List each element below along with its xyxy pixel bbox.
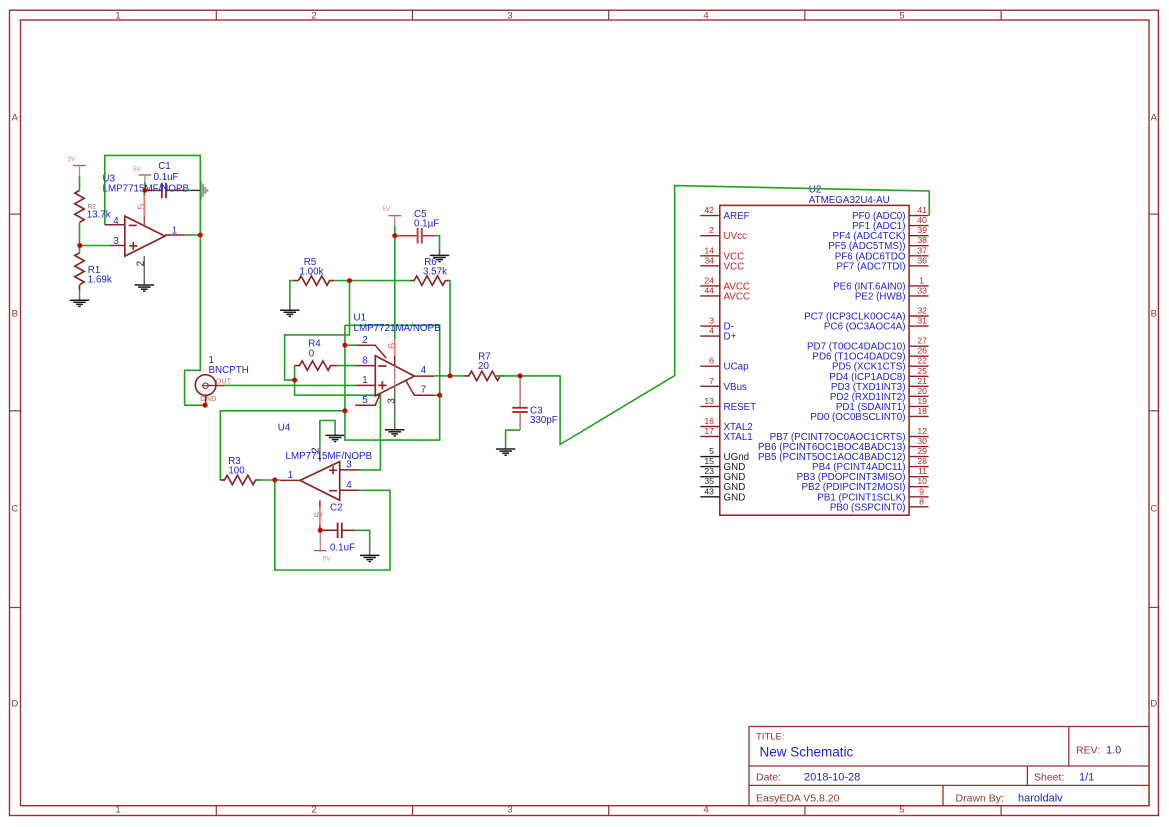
svg-text:29: 29 xyxy=(917,446,927,456)
wire node to U3 pin3 xyxy=(80,245,111,247)
svg-text:UVcc: UVcc xyxy=(724,231,748,242)
wire C2 to ground xyxy=(355,530,370,546)
svg-text:6: 6 xyxy=(387,343,399,349)
capacitor C3 plates xyxy=(512,408,528,412)
svg-text:5: 5 xyxy=(362,395,368,406)
ground (rotated right) at C1 xyxy=(201,182,208,200)
svg-text:32: 32 xyxy=(917,306,927,316)
svg-text:OUT: OUT xyxy=(216,376,232,385)
connector BNCPTH body xyxy=(195,375,216,396)
svg-text:21: 21 xyxy=(917,376,927,386)
svg-text:1: 1 xyxy=(919,275,924,285)
wire U1 guard loop top xyxy=(345,325,440,395)
frame row ticks right xyxy=(1149,214,1158,607)
junction U1 pin2 xyxy=(342,343,347,348)
wire overlay at C1 ground xyxy=(199,180,201,201)
svg-text:A: A xyxy=(12,112,19,123)
wire R1 to ground xyxy=(79,285,81,300)
svg-text:5V: 5V xyxy=(323,555,332,562)
U3 pin 5 line (V+) xyxy=(143,190,145,225)
U3 minus symbol xyxy=(129,224,137,226)
svg-text:14: 14 xyxy=(704,245,714,255)
power 5V symbol below C2 junction xyxy=(314,530,327,550)
svg-text:4: 4 xyxy=(709,326,714,336)
wire feedback-net to R3 xyxy=(220,411,345,480)
U4 pin 4 stub xyxy=(340,489,360,491)
svg-text:13: 13 xyxy=(704,396,714,406)
U1 pin 3 line (V-) xyxy=(394,386,396,415)
op-amp U1 body xyxy=(375,356,414,396)
junction U1 pin7 xyxy=(437,393,442,398)
ground below U3 pin 2 xyxy=(135,285,154,291)
capacitor C3 top lead xyxy=(519,376,521,407)
svg-text:XTAL1: XTAL1 xyxy=(724,432,753,443)
U2 left ground pin numbers xyxy=(704,446,714,496)
ground below R1 xyxy=(70,300,89,306)
svg-text:5: 5 xyxy=(899,11,904,22)
frame column ticks top xyxy=(216,10,1001,20)
svg-text:PC6 (OC3AOC4A): PC6 (OC3AOC4A) xyxy=(824,322,906,333)
junction R4 node xyxy=(292,378,297,383)
wire U3 output to BNC gnd xyxy=(185,235,203,405)
U2 left pin stubs (red) xyxy=(700,216,720,437)
frame column labels top xyxy=(115,11,904,22)
svg-text:39: 39 xyxy=(917,225,927,235)
svg-text:2: 2 xyxy=(311,11,316,22)
svg-text:AREF: AREF xyxy=(724,211,750,222)
svg-text:2018-10-28: 2018-10-28 xyxy=(804,772,860,784)
wire U1 guard loop left vertical xyxy=(345,325,440,440)
svg-text:5V: 5V xyxy=(383,206,392,213)
svg-text:3.57k: 3.57k xyxy=(423,266,447,277)
svg-text:24: 24 xyxy=(704,275,714,285)
U3 pin 2 line (V-) xyxy=(143,256,145,285)
BNC OUT pin lead xyxy=(208,385,224,387)
connector BNCPTH inner pin xyxy=(202,383,209,388)
ground at C3 xyxy=(496,449,515,455)
frame row labels left xyxy=(11,112,18,709)
wire R4 to U1 pin8 xyxy=(337,365,355,367)
U3 pin 4 stub xyxy=(105,224,125,226)
capacitor C5 right lead xyxy=(422,235,435,237)
capacitor C2 left lead xyxy=(320,529,337,531)
op-amp U3 body xyxy=(125,216,165,256)
svg-text:GND: GND xyxy=(200,394,216,403)
junction C5/5V xyxy=(392,233,397,238)
junction U1 pin4/R6/R7 xyxy=(448,373,453,378)
U1 pin 6 line (V+) xyxy=(394,338,396,366)
svg-text:4: 4 xyxy=(346,480,352,491)
wire R4 left lead riser xyxy=(294,366,296,381)
junction node R2/R1/pin3 xyxy=(77,243,82,248)
IC U2 body xyxy=(720,205,909,515)
svg-text:100: 100 xyxy=(228,465,245,476)
U2 left pin numbers xyxy=(704,205,714,436)
svg-text:41: 41 xyxy=(917,205,927,215)
resistor R7 body xyxy=(464,371,504,380)
ground at C2 xyxy=(360,555,379,561)
svg-text:9: 9 xyxy=(919,486,924,496)
wire 5V to R2 xyxy=(79,176,81,190)
ground stem at C5 xyxy=(439,250,441,255)
svg-text:1: 1 xyxy=(288,470,293,481)
svg-text:UCap: UCap xyxy=(724,362,750,373)
wire U1 pin7 to junction xyxy=(434,394,439,396)
svg-text:19: 19 xyxy=(917,396,927,406)
svg-text:haroldalv: haroldalv xyxy=(1018,793,1063,805)
ground at U4 pin2 xyxy=(325,435,344,441)
svg-text:20: 20 xyxy=(917,386,927,396)
svg-text:D: D xyxy=(1150,699,1157,710)
svg-text:4: 4 xyxy=(703,805,708,816)
frame column labels bottom xyxy=(115,805,904,816)
svg-text:44: 44 xyxy=(704,285,714,295)
wire R5 to R6 xyxy=(334,280,411,282)
svg-text:3: 3 xyxy=(387,398,398,404)
U1 plus symbol xyxy=(378,381,386,389)
svg-text:5: 5 xyxy=(136,203,148,209)
svg-text:40: 40 xyxy=(917,215,927,225)
svg-text:4: 4 xyxy=(703,11,708,22)
svg-text:PB0 (SSPCINT0): PB0 (SSPCINT0) xyxy=(830,502,906,513)
svg-text:7: 7 xyxy=(709,376,714,386)
svg-text:RESET: RESET xyxy=(724,402,757,413)
ground at C5 xyxy=(430,255,449,261)
U3 plus symbol xyxy=(129,242,137,250)
svg-text:0.1uF: 0.1uF xyxy=(153,172,178,183)
U1 pin 8 stub xyxy=(355,365,375,367)
junction C2/5V xyxy=(318,528,323,533)
U1 pin 4 stub xyxy=(414,375,434,377)
junction feedback/R3 wire xyxy=(342,408,347,413)
wire C5 to ground xyxy=(435,236,440,250)
capacitor C1 plates xyxy=(162,183,166,199)
svg-text:31: 31 xyxy=(917,316,927,326)
capacitor C2 right lead xyxy=(342,529,355,531)
power 5V symbol above R2 xyxy=(73,166,86,177)
U4 pin 2 line (V-) xyxy=(319,442,321,461)
svg-text:7: 7 xyxy=(421,384,426,395)
svg-text:1.00k: 1.00k xyxy=(300,266,324,277)
svg-text:5: 5 xyxy=(709,446,714,456)
svg-text:1.0: 1.0 xyxy=(1106,745,1121,757)
svg-text:3: 3 xyxy=(507,805,512,816)
U1 pin 3 lower segment xyxy=(394,421,396,430)
svg-text:5V: 5V xyxy=(67,156,76,163)
svg-text:D: D xyxy=(11,699,18,710)
resistor R4 body xyxy=(295,361,338,370)
resistor R3 body xyxy=(220,475,260,484)
BNC GND pin lead xyxy=(205,395,207,405)
svg-text:5: 5 xyxy=(313,511,325,517)
U1 pin 3 green segment xyxy=(394,415,396,420)
junction BNC GND xyxy=(203,403,208,408)
svg-text:B: B xyxy=(12,309,18,320)
ground stem at C2 xyxy=(369,546,371,555)
svg-text:12: 12 xyxy=(917,426,927,436)
wire R6 down to U1 pin4 junction xyxy=(449,281,451,376)
wire R3 to U4 pin1 junction xyxy=(256,479,280,481)
wire U3 pin1 to node xyxy=(185,234,200,236)
svg-text:330pF: 330pF xyxy=(530,415,558,426)
svg-text:1: 1 xyxy=(362,375,367,386)
svg-text:43: 43 xyxy=(704,486,714,496)
svg-text:4: 4 xyxy=(421,365,427,376)
svg-text:15: 15 xyxy=(704,456,714,466)
svg-text:1.69k: 1.69k xyxy=(88,275,112,286)
svg-text:17: 17 xyxy=(704,426,714,436)
svg-text:10: 10 xyxy=(917,476,927,486)
frame row ticks left xyxy=(10,214,21,607)
svg-text:EasyEDA V5.8.20: EasyEDA V5.8.20 xyxy=(756,793,840,805)
svg-text:GND: GND xyxy=(724,492,746,503)
wire R4 node to U4 pin3 xyxy=(295,380,381,470)
power 5V symbol above U3 pin5 xyxy=(139,175,152,182)
svg-text:36: 36 xyxy=(917,255,927,265)
svg-text:LMP7715MF/NOPB: LMP7715MF/NOPB xyxy=(286,451,373,462)
U1 pin 1 stub xyxy=(355,384,375,386)
wire R2 to node xyxy=(79,223,81,253)
svg-text:Drawn By:: Drawn By: xyxy=(956,793,1004,805)
U3 pin 3 stub xyxy=(110,245,124,247)
svg-text:B: B xyxy=(1151,309,1157,320)
U2 right pin stubs (red) xyxy=(909,216,929,507)
svg-text:1: 1 xyxy=(115,11,120,22)
svg-text:TITLE:: TITLE: xyxy=(756,732,785,743)
wire pin4 junction to R7 xyxy=(450,375,465,377)
junction U3 output xyxy=(198,233,203,238)
svg-text:0.1uF: 0.1uF xyxy=(330,542,355,553)
capacitor C2 plates xyxy=(338,523,342,539)
wire R7 to C3 junction xyxy=(496,375,520,377)
svg-text:25: 25 xyxy=(917,366,927,376)
wire U4 pin2 to ground xyxy=(320,421,335,443)
svg-text:AVCC: AVCC xyxy=(724,291,751,302)
wire R5 gnd riser xyxy=(290,281,294,301)
resistor R6 body xyxy=(411,276,450,285)
svg-text:11: 11 xyxy=(918,466,927,476)
svg-text:38: 38 xyxy=(917,235,927,245)
svg-text:18: 18 xyxy=(917,406,927,416)
svg-text:3: 3 xyxy=(113,236,119,247)
svg-text:22: 22 xyxy=(917,356,927,366)
U1 pin 7 stub xyxy=(406,381,435,396)
svg-text:42: 42 xyxy=(704,205,714,215)
svg-text:0.1µF: 0.1µF xyxy=(414,219,439,230)
svg-text:8: 8 xyxy=(919,496,924,506)
svg-text:3: 3 xyxy=(507,11,512,22)
svg-text:3: 3 xyxy=(709,316,714,326)
resistor R2 body xyxy=(75,190,84,222)
wire BNC OUT to U1 pin 1 xyxy=(224,384,355,386)
capacitor C5 plates xyxy=(418,228,422,244)
capacitor C3 bottom lead xyxy=(519,412,521,430)
svg-text:A: A xyxy=(1151,112,1158,123)
svg-text:5V: 5V xyxy=(133,166,142,173)
svg-text:VBus: VBus xyxy=(724,382,748,393)
U3 pin 1 stub xyxy=(165,234,185,236)
wire R5 node down to R4 node loop xyxy=(285,281,350,381)
svg-text:30: 30 xyxy=(917,436,927,446)
svg-text:2: 2 xyxy=(362,335,367,346)
U4 minus symbol xyxy=(329,490,337,492)
U1 pin 2 stub xyxy=(355,345,386,358)
wire U4 feedback loop pin4 to pin1 xyxy=(275,480,390,570)
svg-text:1: 1 xyxy=(172,226,177,237)
svg-text:13.7k: 13.7k xyxy=(87,210,111,221)
svg-text:BNCPTH: BNCPTH xyxy=(209,365,249,376)
wire 5V to C1 junction xyxy=(144,182,146,190)
svg-text:8: 8 xyxy=(362,355,368,366)
svg-text:20: 20 xyxy=(478,361,489,372)
svg-text:27: 27 xyxy=(917,336,927,346)
U1 pin 5 stub xyxy=(355,395,380,406)
U2 left ground pin stubs (black) xyxy=(700,457,720,497)
wire guard to pin2 xyxy=(345,344,355,346)
U2 right pin numbers xyxy=(917,205,927,506)
svg-text:C: C xyxy=(1150,503,1157,514)
U1 pin 6 line inside triangle xyxy=(394,366,396,386)
svg-text:2: 2 xyxy=(311,805,316,816)
frame column ticks bottom xyxy=(216,806,1001,816)
title block outline xyxy=(749,727,1149,806)
svg-text:REV:: REV: xyxy=(1076,745,1100,757)
svg-text:2: 2 xyxy=(709,225,714,235)
svg-text:C1: C1 xyxy=(158,161,171,172)
junction R3/U4 pin1 xyxy=(272,478,277,483)
svg-text:1/1: 1/1 xyxy=(1079,772,1094,784)
U4 pin 1 stub xyxy=(280,479,300,481)
ground stem below R5 xyxy=(289,300,291,310)
svg-text:2: 2 xyxy=(135,260,146,266)
ground at U1 pin3 xyxy=(385,430,404,436)
U4 plus symbol xyxy=(329,466,337,474)
svg-text:34: 34 xyxy=(704,255,714,265)
svg-text:New Schematic: New Schematic xyxy=(760,745,854,760)
ground stem at U4 pin2 xyxy=(334,425,336,435)
svg-text:28: 28 xyxy=(917,456,927,466)
power 5V symbol above C5 xyxy=(389,216,402,226)
resistor R1 body xyxy=(75,253,84,285)
svg-text:37: 37 xyxy=(917,245,927,255)
svg-text:4: 4 xyxy=(113,216,119,227)
frame row labels right xyxy=(1150,112,1157,709)
svg-text:U2: U2 xyxy=(809,184,822,195)
wire C3 junction to U2 pin41 (long path with diagonal) xyxy=(520,186,929,445)
junction R7/C3 xyxy=(518,373,523,378)
svg-text:26: 26 xyxy=(917,346,927,356)
junction R5/R6 node xyxy=(347,278,352,283)
svg-text:PD0 (OC0BSCLINT0): PD0 (OC0BSCLINT0) xyxy=(810,412,905,423)
svg-text:ATMEGA32U4-AU: ATMEGA32U4-AU xyxy=(809,195,890,206)
wire C1 to gnd flag xyxy=(184,189,190,191)
capacitor C1 right lead xyxy=(166,189,184,191)
ground stem at C3 xyxy=(505,440,507,449)
resistor R5 body xyxy=(294,276,334,285)
capacitor C1 left lead xyxy=(145,189,161,191)
wire U3 feedback top xyxy=(105,155,201,235)
svg-text:16: 16 xyxy=(704,416,714,426)
U1 minus symbol xyxy=(378,365,386,367)
ground below R5 xyxy=(280,310,299,316)
svg-text:U4: U4 xyxy=(278,423,291,434)
svg-text:23: 23 xyxy=(704,466,714,476)
wire 5V to C5 junction and down to U1 pin6 xyxy=(394,226,396,339)
junction C1/5V/pin5 xyxy=(142,188,147,193)
svg-text:33: 33 xyxy=(917,285,927,295)
svg-text:LMP7721MA/NOPB: LMP7721MA/NOPB xyxy=(354,323,442,334)
svg-text:6: 6 xyxy=(709,356,714,366)
wire U1 pin4 to junction xyxy=(434,375,450,377)
U2 left pin names xyxy=(724,211,757,503)
wire C3 to ground xyxy=(506,430,520,440)
svg-text:VCC: VCC xyxy=(724,261,745,272)
svg-text:35: 35 xyxy=(704,476,714,486)
capacitor C5 left lead xyxy=(395,235,417,237)
svg-text:1: 1 xyxy=(115,805,120,816)
U2 right pin names xyxy=(758,211,906,513)
svg-text:0: 0 xyxy=(309,348,315,359)
svg-text:Date:: Date: xyxy=(756,772,781,784)
svg-text:Sheet:: Sheet: xyxy=(1034,772,1064,784)
svg-text:C: C xyxy=(11,503,18,514)
svg-text:D+: D+ xyxy=(724,332,737,343)
op-amp U4 body xyxy=(300,462,340,501)
svg-text:PF7 (ADC7TDI): PF7 (ADC7TDI) xyxy=(836,261,905,272)
svg-text:C2: C2 xyxy=(330,502,343,513)
wire C1 gnd black segment xyxy=(190,189,200,191)
U4 pin 5 line (V+) xyxy=(319,500,321,530)
svg-text:PE2 (HWB): PE2 (HWB) xyxy=(855,291,906,302)
U4 pin 3 stub xyxy=(340,469,360,471)
